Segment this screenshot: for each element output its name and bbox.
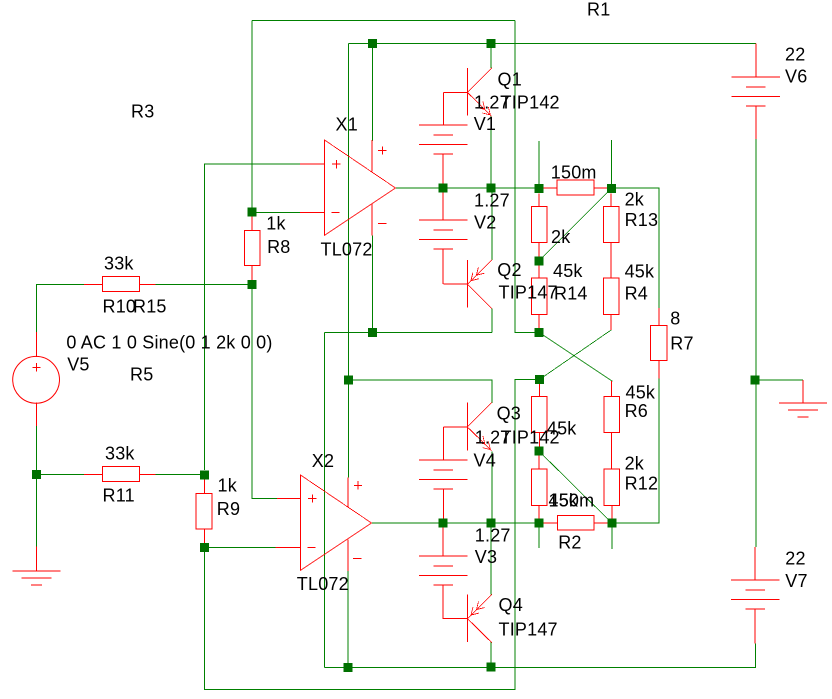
label 45k R3b <box>549 491 579 511</box>
wire stub above node 539,188 <box>538 141 540 188</box>
svg-text:1.27: 1.27 <box>474 190 510 210</box>
wire x=252 vertical to X2 + input <box>252 284 277 498</box>
label 150m R1 <box>551 163 597 183</box>
wire V6 negative lead down right rail x=755 <box>755 139 757 547</box>
battery V7 <box>731 580 779 609</box>
label 1.27 V2 <box>474 190 510 210</box>
svg-text:1.27: 1.27 <box>475 526 511 546</box>
label TIP142 Q1 <box>501 92 560 112</box>
svg-text:R9: R9 <box>217 499 240 519</box>
resistor R2 right lead <box>594 522 607 524</box>
battery V6 <box>731 77 779 106</box>
op-amp X1 V- marker <box>378 223 386 225</box>
svg-text:V6: V6 <box>785 67 807 87</box>
op-amp X1 V+ pin <box>371 140 373 172</box>
node X1 minus / R8 (252,212) <box>248 207 257 216</box>
svg-text:R13: R13 <box>625 210 659 230</box>
resistor R5 (45k lower-left) <box>532 396 548 432</box>
svg-text:TIP147: TIP147 <box>499 620 558 640</box>
node Q1-Q2 emitters (491,188) <box>487 184 496 193</box>
label X1 <box>336 115 358 135</box>
label 33k R11 <box>105 444 135 464</box>
svg-text:R1: R1 <box>587 0 610 20</box>
wire stub below node 612,523 <box>611 523 613 549</box>
label TIP147 Q4 <box>499 620 558 640</box>
wire X2 V- down to node (348,667) <box>347 571 349 667</box>
resistor R9 bottom lead <box>203 529 205 543</box>
ground right <box>779 403 827 417</box>
battery V2 <box>419 220 467 249</box>
label 22 V7 <box>785 549 805 569</box>
resistor R3 (lower-left 2nd) <box>531 469 547 506</box>
svg-text:1k: 1k <box>266 214 286 234</box>
wire Q2 emitter from node (491,188) <box>491 188 493 260</box>
resistor R10 <box>103 276 140 291</box>
wire R7 bottom leg and corner to node (612,523) <box>612 378 659 523</box>
label 1k R8 <box>266 214 286 234</box>
wire Q1 emitter to node (491,188) <box>490 116 492 188</box>
op-amp X2 - input marker <box>307 546 315 548</box>
node right rail ground (755,380) <box>751 376 760 385</box>
op-amp X1 - input pin <box>300 211 325 213</box>
ground left <box>12 571 60 585</box>
svg-text:V7: V7 <box>785 571 807 591</box>
battery V3 <box>419 556 467 585</box>
label Q2 <box>497 260 521 280</box>
label Q4 <box>499 595 523 615</box>
svg-text:22: 22 <box>785 549 805 569</box>
label Q3 <box>497 404 521 424</box>
resistor R6 (45k) <box>604 396 620 432</box>
svg-text:V4: V4 <box>474 451 496 471</box>
wire X1 V- down to node (372,332) <box>371 235 373 332</box>
svg-text:2k: 2k <box>625 190 645 210</box>
label 45k R14 <box>553 261 583 281</box>
wire X2 output row y=522.6 <box>372 522 612 524</box>
wire R11 row y=474 <box>36 473 204 475</box>
svg-text:150m: 150m <box>549 491 595 511</box>
resistor R8 bottom lead <box>251 266 253 280</box>
op-amp X1 V- pin <box>371 204 373 235</box>
resistor R4 bottom lead <box>610 314 612 330</box>
wire Q2 collector stub <box>491 309 493 333</box>
label R11 <box>103 486 135 506</box>
battery V6 top lead <box>755 44 757 78</box>
wire bottom loop x=515 down, bottom y=689, up to node (204,547) <box>204 380 539 690</box>
wire R10 row y=284 and corner down to V5 <box>36 284 252 332</box>
wire x=252 vertical top (20.5-212) <box>251 21 253 212</box>
transistor Q1 <box>443 68 491 116</box>
node R8 bottom (252,284) <box>248 280 257 289</box>
label V2 <box>474 213 496 233</box>
label 1.27 V4 <box>475 428 511 448</box>
node rail/Q1 collector (491,43.5) <box>487 39 496 48</box>
source V5 circle <box>13 356 60 403</box>
svg-text:R12: R12 <box>625 474 659 494</box>
resistor R4 (45k) <box>603 278 619 314</box>
resistor R12 bottom lead <box>611 506 613 519</box>
resistor R7 top lead <box>658 308 660 326</box>
svg-text:Q1: Q1 <box>498 70 522 90</box>
transistor Q2 <box>443 260 492 309</box>
resistor R10 right lead <box>139 283 155 285</box>
label R4 <box>625 284 648 304</box>
op-amp X2 + input marker <box>308 494 316 502</box>
resistor R1 (150m) left lead <box>544 187 557 189</box>
svg-text:R5: R5 <box>130 365 153 385</box>
svg-text:R11: R11 <box>103 486 135 506</box>
battery V7 bottom lead <box>754 610 756 644</box>
svg-text:R4: R4 <box>625 284 648 304</box>
label R12 <box>625 474 659 494</box>
battery V4 bottom lead <box>442 489 444 523</box>
wire row y=332 from corner x=324 to Q2 collector <box>324 331 492 333</box>
svg-text:X1: X1 <box>336 115 358 135</box>
resistor R9 top lead <box>203 479 205 493</box>
op-amp X2 V- marker <box>353 558 361 560</box>
wire stub below node 539,523 <box>538 523 540 548</box>
wire diagonal (539,451)-(612,523) <box>539 451 612 523</box>
label 1.27 V1 <box>474 92 510 112</box>
label 2k R15 <box>551 227 571 247</box>
transistor Q3 base wire <box>443 427 445 460</box>
wire supply rail top y=43.5 <box>349 43 756 45</box>
svg-text:45k: 45k <box>625 262 655 282</box>
wire row y=380 X2 V+ node to Q3 collector corner <box>349 380 492 403</box>
resistor R3 (lower-left 2nd) top lead <box>538 456 540 469</box>
node R9 bottom / X2 minus (204,547) <box>200 543 209 552</box>
wire top feedback (252,20)-(515,20) <box>252 20 515 22</box>
svg-text:V1: V1 <box>474 114 496 134</box>
wire Q1 collector from node (491,43.5) <box>490 44 492 69</box>
label R8 <box>267 237 290 257</box>
resistor R9 <box>196 493 212 529</box>
ground right lead <box>802 380 804 403</box>
battery V6 bottom lead <box>755 106 757 139</box>
svg-text:X2: X2 <box>312 451 334 471</box>
battery V3 top lead <box>442 523 444 556</box>
svg-text:TIP142: TIP142 <box>501 92 560 112</box>
wire stub above node 611,188 <box>610 140 612 188</box>
svg-text:TL072: TL072 <box>297 574 349 594</box>
label 8 R7 <box>670 309 680 329</box>
op-amp X2 <box>301 475 372 570</box>
source V5 bottom lead <box>35 403 37 427</box>
wire x=324 vertical down to row 667 <box>323 332 325 667</box>
label R7 <box>670 334 693 354</box>
wire Q4 emitter from node (491,523) <box>490 523 492 594</box>
svg-text:V2: V2 <box>474 213 496 233</box>
wire right ground branch from node (755,380) <box>755 379 803 381</box>
label R6 <box>625 401 648 421</box>
resistor R12 (2k) <box>604 469 620 506</box>
wire Q4 collector to node (491,667) <box>490 642 492 667</box>
label V5 params <box>66 333 272 353</box>
label 22 V6 <box>785 45 805 65</box>
wire X1 V+ from node (372,43.5) <box>371 44 373 142</box>
op-amp X2 + input pin <box>277 498 301 500</box>
svg-text:R7: R7 <box>670 334 693 354</box>
resistor R11 <box>103 466 140 481</box>
label V6 <box>785 67 807 87</box>
resistor R13 (2k) <box>603 206 619 242</box>
resistor R11 right lead <box>139 473 155 475</box>
resistor R2 <box>558 515 595 530</box>
transistor Q4 <box>444 594 493 643</box>
transistor Q1 base wire <box>442 92 444 125</box>
svg-text:R15: R15 <box>133 297 167 317</box>
label 33k R10 <box>104 254 134 274</box>
resistor R7 (8) <box>651 326 668 361</box>
resistor R6 (45k) top lead <box>611 381 613 396</box>
resistor R14 (45k) <box>531 278 547 314</box>
label TIP142 Q3 <box>501 428 560 448</box>
battery V2 bottom lead <box>442 249 444 284</box>
wire row y=667 from x=324 to V7 <box>324 644 755 668</box>
label 150m R2 <box>549 491 595 511</box>
label R14 <box>554 284 588 304</box>
node Q3-Q4 emitters (491,523) <box>487 519 496 528</box>
label R2 <box>558 533 581 553</box>
label TL072 X1 <box>321 240 373 260</box>
wire diagonal (611,330)-(539,380) <box>539 330 611 380</box>
node R2 right (612,523) <box>607 518 616 527</box>
node V5/R11 (36,474) <box>32 470 41 479</box>
svg-text:R2: R2 <box>558 533 581 553</box>
svg-text:33k: 33k <box>104 254 134 274</box>
svg-text:R14: R14 <box>554 284 588 304</box>
svg-text:TL072: TL072 <box>321 240 373 260</box>
resistor R14 bottom lead <box>538 314 540 328</box>
svg-text:45k: 45k <box>547 419 577 439</box>
label R5 <box>130 365 153 385</box>
battery V2 top lead <box>442 188 444 220</box>
label V3 <box>475 547 497 567</box>
resistor R13 top lead <box>610 194 612 207</box>
battery V7 top lead <box>754 547 756 580</box>
battery V1 bottom lead <box>442 154 444 188</box>
label R10 <box>103 297 137 317</box>
label 45k R6 <box>626 383 656 403</box>
node R11/R9 (204,475) <box>200 470 209 479</box>
resistor R6 bottom lead <box>611 433 613 469</box>
wire Q3 emitter to node (491,523) <box>491 452 493 523</box>
svg-text:1k: 1k <box>218 476 238 496</box>
label TL072 X2 <box>297 574 349 594</box>
svg-text:2k: 2k <box>625 454 645 474</box>
label R13 <box>625 210 659 230</box>
resistor R15 bottom lead <box>538 242 540 256</box>
wire diagonal (539,332)-(612,381) <box>539 332 612 381</box>
battery V3 bottom lead and corner to Q4 base <box>443 585 467 619</box>
svg-text:8: 8 <box>670 309 680 329</box>
resistor R5 (45k lower-left) top lead <box>538 384 540 396</box>
op-amp X2 V+ pin <box>347 478 349 508</box>
label Q1 <box>498 70 522 90</box>
svg-text:R6: R6 <box>625 401 648 421</box>
wire diagonal (611,188)-(539,261) <box>539 188 611 260</box>
node X2 V- row667 (348,667) <box>344 663 353 672</box>
node V1-V2 output (443,188) <box>439 184 448 193</box>
svg-text:V3: V3 <box>475 547 497 567</box>
op-amp X2 V+ marker <box>354 481 362 489</box>
svg-text:0 AC 1 0 Sine(0 1 2k 0 0): 0 AC 1 0 Sine(0 1 2k 0 0) <box>66 333 272 353</box>
svg-text:V5: V5 <box>67 355 89 375</box>
node rail/X1 V+ (372,43.5) <box>368 39 377 48</box>
label 2k R13 <box>625 190 645 210</box>
op-amp X1 + input marker <box>332 160 340 168</box>
label V7 <box>785 571 807 591</box>
op-amp X1 V+ marker <box>378 146 386 154</box>
label X2 <box>312 451 334 471</box>
node diag/R5 top (539,380) <box>535 375 544 384</box>
svg-text:45k: 45k <box>553 261 583 281</box>
svg-text:Q4: Q4 <box>499 595 523 615</box>
label TIP147 Q2 <box>499 283 558 303</box>
label V1 <box>474 114 496 134</box>
label 2k R12 <box>625 454 645 474</box>
resistor R5 bottom lead <box>538 433 540 447</box>
ground left lead <box>35 547 37 572</box>
battery V1 <box>419 125 467 154</box>
resistor R15 (2k upper-left) top lead <box>538 194 540 207</box>
transistor Q3 <box>443 402 491 450</box>
svg-text:TIP147: TIP147 <box>499 283 558 303</box>
resistor R14 top lead <box>538 265 540 278</box>
wire X1 - input row y=212 <box>252 211 300 213</box>
op-amp X1 - input marker <box>331 211 339 213</box>
label V4 <box>474 451 496 471</box>
source V5 + marker <box>32 363 40 371</box>
label V5 <box>67 355 89 375</box>
label 1.27 V3 <box>475 526 511 546</box>
source V5 top lead <box>35 332 37 357</box>
node R5-R3 (539,451) <box>535 447 544 456</box>
svg-text:Q3: Q3 <box>497 404 521 424</box>
resistor R13 bottom lead <box>610 242 612 278</box>
battery V4 <box>419 460 467 489</box>
wire X1 + input from (204,164) and down-left vertical to R9 <box>204 164 300 470</box>
svg-text:R3: R3 <box>131 102 154 122</box>
svg-text:45k: 45k <box>626 383 656 403</box>
wire node to left ground <box>35 474 37 546</box>
svg-text:2k: 2k <box>551 227 571 247</box>
resistor R2 left lead <box>544 522 558 524</box>
node Q4 collector row667 (491,667) <box>487 663 496 672</box>
node X2 V+ rail (348,380) <box>344 376 353 385</box>
node 150m left (539,188) <box>535 184 544 193</box>
resistor R7 bottom lead <box>658 361 660 379</box>
wire V5 bottom to node <box>35 426 37 474</box>
label R1 <box>587 0 610 20</box>
svg-text:R10: R10 <box>103 297 137 317</box>
resistor R1 (150m) <box>557 180 594 195</box>
op-amp X1 + input pin <box>300 163 325 165</box>
wire X2 - input row y=547 <box>204 546 276 548</box>
svg-text:Q2: Q2 <box>497 260 521 280</box>
resistor R15 (2k upper-left) <box>531 206 547 242</box>
wire X1 output row y=187.6 to R7 corner <box>396 188 660 308</box>
resistor R8 <box>244 230 260 265</box>
svg-text:33k: 33k <box>105 444 135 464</box>
op-amp X2 V- pin <box>347 540 349 571</box>
resistor R1 (150m) right lead <box>594 187 607 189</box>
resistor R3 bottom lead <box>538 506 540 519</box>
resistor R11 left lead <box>84 473 103 475</box>
label R9 <box>217 499 240 519</box>
node R14 bottom (539,332) <box>535 328 544 337</box>
op-amp X1 <box>325 140 396 235</box>
label 45k R5 <box>547 419 577 439</box>
svg-text:22: 22 <box>785 45 805 65</box>
node V4-V3 (443,523) <box>439 519 448 528</box>
wire x=348.6 vertical from rail to X2 V+ pin <box>348 44 350 478</box>
svg-text:150m: 150m <box>551 163 597 183</box>
label 1k R9 <box>218 476 238 496</box>
label R3 <box>131 102 154 122</box>
label 45k R4 <box>625 262 655 282</box>
svg-text:R8: R8 <box>267 237 290 257</box>
node R15-R14 (539,261) <box>535 256 544 265</box>
node X1 V- / row332 (372,332) <box>368 328 377 337</box>
node 150m right (611,188) <box>607 184 616 193</box>
resistor R8 top lead <box>251 216 253 230</box>
op-amp X2 - input pin <box>276 546 301 548</box>
node R3 bottom/R2 left (539,523) <box>535 519 544 528</box>
resistor R10 left lead <box>84 283 103 285</box>
label R15 <box>133 297 167 317</box>
wire right vertical x=515 top segment down to node row 332 <box>515 21 535 333</box>
